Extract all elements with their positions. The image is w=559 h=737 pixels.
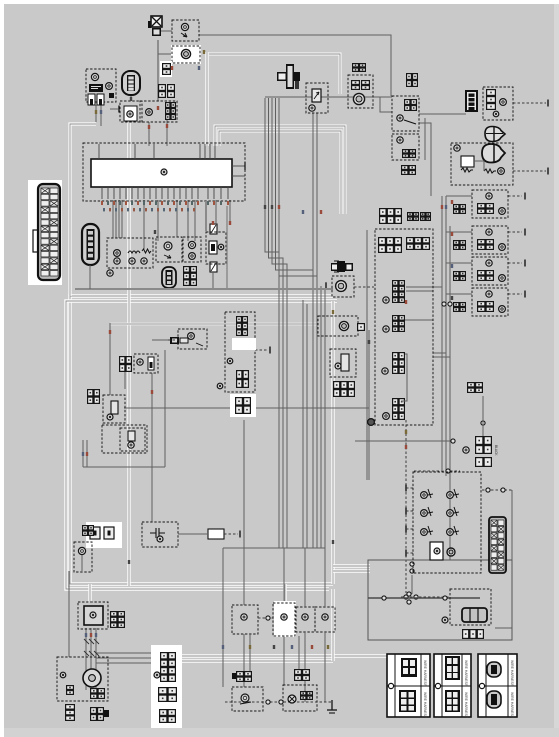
wire jog 3 bbox=[313, 547, 325, 549]
terminal coil ground y263 bbox=[524, 260, 526, 267]
wire mid drop x284 bbox=[283, 548, 285, 601]
svg-text:WIRE HARNESS: WIRE HARNESS bbox=[423, 660, 427, 687]
solenoid body bbox=[341, 354, 349, 371]
connector switch A bbox=[236, 671, 252, 682]
wire sidestand white drop bbox=[283, 584, 286, 636]
connector fuse small bbox=[162, 63, 171, 75]
terminal handlebar 553 bbox=[405, 550, 407, 557]
wire relay drop 2 bbox=[419, 123, 431, 196]
fuse label block bbox=[89, 84, 103, 92]
connector injector 3 bbox=[392, 352, 405, 374]
connector black top bbox=[467, 382, 483, 393]
wire fuse drop 2 bbox=[100, 105, 102, 126]
box headlight bbox=[120, 101, 142, 122]
wire to spark terminal bbox=[152, 339, 170, 341]
connector gen 4p bbox=[90, 688, 105, 699]
connector tee mid bbox=[331, 261, 353, 272]
wire black stack bbox=[482, 396, 484, 436]
wire dashed to frame ground 1 bbox=[513, 102, 546, 104]
connector sensor B bbox=[87, 389, 100, 404]
connector coil feed 3 bbox=[453, 271, 466, 281]
connector bottom L1 bbox=[65, 704, 75, 721]
wire mid drop2 x325 bbox=[324, 632, 326, 702]
connector stator 4p b bbox=[159, 709, 176, 723]
ECU side stub bbox=[232, 165, 245, 167]
box TPS bbox=[332, 276, 354, 297]
fuse B body bbox=[148, 357, 154, 370]
wire relay to coupler bbox=[419, 113, 466, 115]
junction battery 2 bbox=[407, 592, 411, 596]
wire left cased feed bbox=[70, 124, 96, 296]
connector coil 4 bbox=[477, 301, 494, 312]
box solenoid bbox=[330, 349, 356, 377]
wire trunk 7 bbox=[306, 304, 308, 548]
box sidestand bbox=[102, 425, 147, 453]
box ignition coil 1 bbox=[472, 190, 508, 218]
stator bulb bbox=[154, 672, 160, 678]
meter bulb 2 bbox=[114, 258, 120, 264]
terminal coil ground y294 bbox=[524, 291, 526, 298]
connector BLACK 4p bbox=[475, 436, 492, 454]
meter bulb 3 bbox=[129, 258, 135, 264]
wire crank sensor run bbox=[110, 323, 318, 326]
wire mid drop2 x284 bbox=[283, 636, 285, 685]
TPS sensor bbox=[336, 281, 347, 292]
connector pair A1 bbox=[158, 84, 166, 98]
switch contact r3c2 bbox=[447, 529, 454, 536]
legend table 1 bbox=[387, 654, 430, 717]
box sensor atm bbox=[178, 329, 207, 349]
box rectifier bbox=[78, 602, 108, 629]
junction battery 4 bbox=[443, 596, 447, 600]
wire stator 2 bbox=[90, 628, 92, 690]
wire colour code labels bbox=[82, 50, 453, 649]
clutch bulb bbox=[107, 414, 113, 420]
wire trunk 5 bbox=[279, 98, 317, 548]
box oil sensor bbox=[156, 237, 182, 262]
wire rectifier white drop bbox=[88, 584, 91, 603]
wire bottom white run upper bbox=[182, 654, 412, 657]
wire ecu to fuse chain 2 bbox=[215, 200, 217, 223]
legend table 3 bbox=[478, 654, 517, 717]
coupler oval small bbox=[162, 267, 176, 288]
box flasher relay bbox=[172, 46, 200, 63]
spark terminal bbox=[170, 337, 179, 344]
box fuse B bbox=[134, 354, 158, 373]
atm sensor bulb bbox=[188, 333, 195, 340]
connector relay 1 bbox=[404, 99, 417, 111]
svg-text:WIRE HARNESS: WIRE HARNESS bbox=[510, 692, 514, 719]
connector coil feed 4 bbox=[453, 302, 466, 312]
capacitor bulb bbox=[157, 536, 163, 542]
wire bottom white link bbox=[331, 589, 334, 661]
coil bulb 3 bbox=[486, 260, 492, 266]
wire white to sensor bus bbox=[209, 54, 340, 94]
connector ign top bbox=[236, 316, 248, 336]
wire dash AB bbox=[258, 617, 273, 619]
wire right trunk 2 bbox=[445, 196, 447, 476]
box handlebar switch left bbox=[413, 472, 481, 573]
wire flasher white drop bbox=[205, 52, 208, 146]
wire mid drop x325 bbox=[324, 548, 326, 607]
oil sensor bulb bbox=[164, 242, 172, 250]
wire stub r bbox=[325, 282, 327, 290]
panel ignition white 2 bbox=[230, 394, 256, 417]
relay pair body bbox=[90, 527, 100, 539]
wire ecu pin drop 5 bbox=[143, 200, 145, 249]
connector diode bbox=[486, 89, 496, 110]
wire coil dash y196 bbox=[508, 195, 522, 197]
wire left white trunk bbox=[127, 122, 130, 586]
wire ign drop 2 bbox=[86, 440, 88, 467]
connector relay 2 bbox=[402, 149, 416, 158]
wire battery link bbox=[411, 575, 413, 594]
wire ecu pin drop 4 bbox=[121, 200, 123, 238]
wire mid drop2 x244 bbox=[243, 634, 245, 687]
connector crank bbox=[357, 323, 365, 331]
box main fuse bbox=[86, 69, 116, 102]
clutch body bbox=[111, 401, 118, 414]
diode D2 bbox=[482, 144, 505, 163]
wire cap to resistor bbox=[178, 533, 208, 535]
connector sensor A bbox=[119, 356, 132, 372]
connector below relay bbox=[401, 165, 416, 175]
connector bottom L2 bbox=[90, 707, 104, 721]
starter cut relay body bbox=[461, 156, 474, 167]
wire conn link bbox=[124, 372, 126, 389]
connector throttle 3p bbox=[462, 629, 484, 639]
connector joint B bbox=[420, 212, 431, 221]
meter bulb 1 bbox=[114, 250, 121, 257]
wire relay drop bbox=[424, 118, 426, 160]
wire starter cut link bbox=[474, 161, 484, 171]
brake switch arm bbox=[240, 702, 251, 704]
switch contact r3c1 bbox=[421, 529, 428, 536]
box relay switch B bbox=[273, 603, 295, 636]
wire dash right top bbox=[482, 489, 512, 491]
terminal coil ground y232 bbox=[524, 229, 526, 236]
junction right 2 bbox=[448, 302, 452, 306]
fuse B bulb bbox=[137, 359, 143, 365]
connector speed B bbox=[361, 80, 370, 90]
wire trunk 2 bbox=[269, 98, 284, 548]
resistor R2 bbox=[484, 169, 496, 173]
wire left sensor drop bbox=[109, 323, 111, 395]
connector diag bbox=[183, 266, 197, 286]
coupler handlebar 16p bbox=[489, 517, 506, 573]
wire stator 3 bbox=[95, 628, 97, 690]
wire feed conn B bbox=[298, 636, 300, 669]
connector bottom L2 tab bbox=[104, 710, 109, 717]
connector switch B bbox=[294, 669, 310, 681]
terminal mid dash bbox=[255, 349, 268, 351]
wire fuse drop 1 bbox=[95, 105, 97, 122]
terminal starter cut bbox=[547, 168, 549, 175]
legend table 2 bbox=[434, 654, 471, 717]
bulb diode bbox=[500, 99, 507, 106]
stator crossing marks bbox=[84, 639, 99, 656]
sidestand body bbox=[128, 431, 135, 441]
rectifier body bbox=[84, 606, 103, 625]
wire spark drop bbox=[164, 350, 166, 467]
box ignition coil 3 bbox=[472, 257, 508, 285]
connector stator 4p bbox=[158, 687, 177, 702]
wire trunk 9 bbox=[324, 290, 326, 548]
panel relay pair white bbox=[86, 522, 122, 548]
connector top pair bbox=[352, 63, 366, 72]
bulb injector 3 bbox=[382, 368, 388, 374]
ign bulb 2 bbox=[217, 383, 223, 389]
junction right 1 bbox=[442, 302, 446, 306]
wire jog 2 bbox=[287, 547, 305, 549]
capacitor C1 bbox=[150, 528, 165, 538]
wire right bracket bbox=[495, 490, 512, 628]
coupler oval 5pin bbox=[82, 224, 99, 265]
panel sidestand white patch bbox=[274, 601, 296, 637]
switch B contact bbox=[281, 614, 287, 620]
coupler right 4pin bbox=[465, 90, 478, 112]
wire trunk 4 bbox=[276, 98, 314, 548]
switch arm r2c2 bbox=[454, 507, 459, 516]
wire injector trunk bbox=[368, 330, 370, 480]
relay 2 coil bbox=[397, 137, 403, 143]
ECU pins top bbox=[99, 144, 215, 159]
box ignition coil 2 bbox=[472, 226, 508, 254]
box relay 1 bbox=[392, 96, 419, 131]
wire bottom white run lower bbox=[182, 659, 333, 662]
bulb injector 4 bbox=[383, 413, 390, 420]
switch contact r1c1 bbox=[421, 492, 428, 499]
box meter assembly bbox=[107, 238, 153, 268]
box starter cut relay bbox=[451, 143, 513, 185]
wire stator link y653 bbox=[96, 652, 160, 654]
sensor lean body bbox=[312, 89, 321, 102]
sidestand bulb bbox=[128, 442, 134, 448]
connector stator 8p bbox=[160, 652, 176, 682]
coil symbol bbox=[128, 251, 140, 253]
terminal fuse stub bbox=[118, 106, 120, 113]
connector injector 2 bbox=[392, 315, 405, 332]
bulb injector 2 bbox=[383, 326, 389, 332]
box generator bbox=[57, 657, 108, 701]
ECU screw bbox=[161, 169, 167, 175]
box sensor speed bbox=[348, 75, 373, 108]
panel ignition white bbox=[232, 338, 256, 350]
wire trunk 6 bbox=[302, 300, 304, 548]
wire ign drop 1 bbox=[82, 440, 84, 467]
wire right link bbox=[226, 206, 228, 289]
temp bulb 2 bbox=[189, 253, 196, 260]
wire right trunk 1 bbox=[441, 196, 443, 470]
wire trunk 1 bbox=[265, 98, 279, 548]
wire battery feed upper bbox=[333, 564, 370, 567]
wire ecu pin drop 9 bbox=[194, 200, 196, 241]
bulb injector dark bbox=[368, 419, 375, 426]
wire handlebar dash column bbox=[405, 420, 407, 593]
ign bulb 1 bbox=[227, 358, 233, 364]
horn bbox=[181, 23, 188, 30]
box brake switch rear bbox=[283, 685, 317, 711]
switch contact r2c1 bbox=[421, 510, 428, 517]
wire meter drop 1 bbox=[148, 122, 150, 146]
switch arm r1c1 bbox=[428, 489, 433, 498]
wire neutral tail bbox=[81, 555, 83, 571]
wire mid drop x305 bbox=[304, 548, 306, 607]
wire ecu pin drop 6 bbox=[157, 200, 159, 241]
coil bulb 1 bbox=[486, 193, 492, 199]
ECU pin labels bbox=[101, 201, 229, 211]
bulb lean bbox=[309, 105, 315, 111]
bulb main bbox=[91, 73, 98, 80]
switch arm r2c1 bbox=[428, 507, 433, 516]
wire coupler drop bbox=[130, 94, 132, 101]
wire gray trunk top bbox=[157, 40, 159, 101]
generator bulb bbox=[60, 672, 66, 678]
headlight bulb bbox=[127, 111, 133, 117]
rectifier circle bbox=[90, 612, 96, 618]
relay 1 coil bbox=[397, 115, 403, 121]
box throttle body bbox=[450, 589, 491, 625]
resistor unit body bbox=[208, 529, 224, 539]
wire injector out 2 bbox=[433, 356, 450, 358]
connector coil 2 bbox=[477, 239, 494, 250]
wire right trunk 3 bbox=[449, 226, 451, 560]
oil arrow bbox=[164, 255, 171, 258]
flasher relay bbox=[181, 49, 190, 58]
wire oval coupler tail bbox=[89, 265, 91, 289]
wire horn stub bbox=[161, 30, 172, 32]
junction battery 1 bbox=[382, 596, 386, 600]
wire mid link bbox=[355, 440, 452, 442]
terminal frame ground 1 bbox=[547, 100, 549, 107]
switch body white bbox=[430, 542, 443, 560]
connector ign bottom bbox=[235, 397, 251, 414]
svg-text:WIRE HARNESS: WIRE HARNESS bbox=[464, 660, 468, 687]
wire trunk 3 bbox=[272, 98, 287, 548]
connector meter bbox=[165, 102, 176, 120]
wire sensor out 1 bbox=[406, 286, 442, 288]
fuse holder 2 bbox=[97, 94, 104, 105]
wire sensor bus bbox=[265, 96, 392, 98]
wire cased pair A bbox=[215, 126, 345, 214]
bulb injector 1 bbox=[383, 297, 389, 303]
connector switch A tab bbox=[232, 673, 236, 679]
wire injector out 1 bbox=[433, 352, 446, 354]
box neutral switch bbox=[74, 542, 92, 572]
box relay switch C bbox=[296, 607, 315, 632]
switch C contact bbox=[302, 614, 308, 620]
ECU pins bbox=[102, 186, 228, 199]
wire jog 4 bbox=[223, 547, 317, 549]
spark plug 4 bbox=[499, 306, 506, 313]
wire TPS dash bbox=[354, 286, 374, 288]
wire fuse chain feed bbox=[205, 201, 207, 231]
wire ecu to fuse chain bbox=[229, 200, 231, 223]
meter bulb 5 bbox=[107, 270, 113, 276]
ground bottom bbox=[331, 700, 333, 710]
switch A contact bbox=[241, 614, 247, 620]
connector ign mid bbox=[236, 370, 249, 388]
switch arm r1c2 bbox=[454, 489, 459, 498]
crank sensor bbox=[339, 321, 348, 330]
wire coil dash y294 bbox=[508, 293, 522, 295]
junction battery 5 bbox=[410, 562, 414, 566]
coil bulb 4 bbox=[486, 291, 492, 297]
fuse holder 1 bbox=[88, 94, 95, 105]
throttle triple coupler bbox=[462, 608, 487, 622]
connector tee cluster bbox=[277, 64, 300, 89]
wire stator link y658 bbox=[96, 657, 160, 659]
box ECU outer bbox=[83, 143, 245, 201]
relay 1 arm bbox=[404, 120, 416, 124]
svg-text:WIRE HARNESS: WIRE HARNESS bbox=[464, 692, 468, 719]
atm plug bbox=[180, 338, 188, 343]
box wire joint bbox=[375, 229, 433, 425]
wire coil feed y232 bbox=[446, 231, 472, 233]
wire coil feed y263 bbox=[446, 262, 472, 264]
wire mid drop x244 bbox=[243, 420, 245, 605]
wire horn to relay bbox=[199, 35, 391, 96]
panel stator white bbox=[151, 645, 182, 728]
wire stator 1 bbox=[85, 628, 87, 690]
box sidestand inner bbox=[120, 428, 145, 451]
connector joint inner B bbox=[406, 237, 430, 250]
wire cross link y289 bbox=[75, 288, 333, 290]
wire injector internal bbox=[401, 354, 407, 401]
wire dash bottom injbox bbox=[414, 470, 460, 472]
bulb diode 2 bbox=[493, 111, 499, 117]
junction battery 3 bbox=[407, 600, 411, 604]
wire flasher left stub bbox=[158, 53, 172, 55]
switch body cap bbox=[447, 548, 455, 556]
switch D contact bbox=[322, 614, 328, 620]
wire dash throttle bbox=[401, 596, 450, 598]
brake switch front bbox=[241, 694, 249, 702]
switch contact r1c2 bbox=[447, 492, 454, 499]
connector rectifier bbox=[110, 611, 125, 628]
wire ecu pin drop 3 bbox=[118, 200, 120, 238]
switch arm r3c2 bbox=[454, 526, 459, 535]
wire bottom dash bus bbox=[225, 701, 332, 703]
box clutch switch bbox=[103, 395, 125, 423]
wire coil feed y196 bbox=[446, 195, 472, 197]
box fuse chain bbox=[206, 232, 226, 264]
spark plug 3 bbox=[499, 275, 506, 282]
connector speed A bbox=[351, 80, 360, 90]
switch arm r3c1 bbox=[428, 526, 433, 535]
bulb main 2 bbox=[106, 83, 113, 90]
terminal stub r bbox=[325, 283, 327, 290]
box diode unit bbox=[483, 87, 513, 120]
connector pair A2 bbox=[167, 84, 175, 98]
connector mid T bbox=[333, 381, 355, 397]
box flasher relay white bbox=[171, 45, 201, 64]
horn arrow bbox=[181, 33, 187, 37]
meter bulb bbox=[146, 109, 153, 116]
wire generator drop bbox=[68, 571, 70, 657]
terminal coil ground y196 bbox=[524, 193, 526, 200]
main switch dot bbox=[109, 93, 114, 98]
box ignition coil 4 bbox=[472, 288, 508, 316]
wire dash starter cut bbox=[513, 170, 546, 172]
wire coil dash y263 bbox=[508, 262, 522, 264]
wire fuse chain tail bbox=[212, 272, 214, 289]
box relay switch A bbox=[232, 605, 258, 634]
junction battery 6 bbox=[410, 569, 414, 573]
fuse chain bulb bbox=[218, 244, 224, 250]
wire trunk 8 bbox=[320, 286, 322, 548]
throttle bulb bbox=[442, 617, 448, 623]
